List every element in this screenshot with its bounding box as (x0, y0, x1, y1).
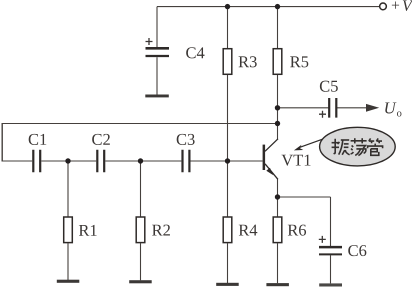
wire C2 to C3 (105, 160, 181, 162)
wire left to C1 (2, 160, 32, 162)
callout ellipse 振荡管 (294, 127, 395, 166)
capacitor C6 (319, 236, 367, 256)
resistor R2 (136, 217, 170, 243)
ground (R6) (266, 283, 289, 286)
wire C4 top drop (156, 7, 158, 48)
output arrow Uo (366, 103, 401, 117)
capacitor C5 (319, 81, 338, 118)
resistor R4 (223, 217, 257, 243)
junction dot collector-C5 (275, 105, 280, 110)
wire C6 top drop (330, 197, 332, 246)
wire R1 bottom to ground (67, 243, 69, 280)
wire C3 to base (190, 160, 263, 162)
wire left edge vertical (1, 123, 3, 162)
junction dot C1-R1 (65, 158, 70, 163)
resistor R6 (273, 217, 306, 243)
capacitor C3 (177, 134, 195, 172)
ground (C6) (319, 283, 342, 286)
junction dot rail-R3 (225, 4, 230, 9)
hanzi 振 (332, 139, 350, 155)
ground (R2) (129, 280, 152, 283)
wire R5 top (277, 7, 279, 49)
wire top supply rail (157, 6, 379, 8)
capacitor C4 (146, 38, 205, 58)
hanzi 荡 (351, 138, 367, 155)
hanzi 管 (368, 138, 383, 155)
capacitor C2 (92, 134, 110, 172)
junction dot rail-R5 (275, 4, 280, 9)
wire emitter down to node (277, 179, 279, 217)
wire C4 bottom to ground (156, 57, 158, 94)
transistor VT1 (263, 139, 311, 180)
resistor R3 (223, 49, 257, 75)
junction dot emitter node (275, 194, 280, 199)
wire R5 bottom to collector (277, 74, 279, 139)
wire R4 bottom to ground (227, 243, 229, 283)
wire feedback line (2, 123, 277, 125)
ground (R1) (57, 280, 80, 283)
ground (C4) (145, 95, 169, 98)
wire R1 top (67, 161, 69, 217)
wire C5 to arrow (337, 107, 372, 109)
wire C6 bottom to ground (330, 255, 332, 283)
wire emitter node to C6 branch (278, 196, 331, 198)
terminal +V (380, 0, 412, 11)
wire R3 bottom to R4 top (bias node) (227, 74, 229, 217)
wire R2 top (140, 161, 142, 217)
wire C1 to C2 (41, 160, 96, 162)
junction dot C3-base (225, 158, 230, 163)
ground (R4) (216, 283, 239, 286)
wire collector output line to C5 (278, 107, 329, 109)
junction dot collector-feedback (275, 121, 280, 126)
wire R3 top (227, 7, 229, 49)
resistor R1 (64, 217, 97, 243)
wire R6 bottom to ground (277, 243, 279, 283)
wire R2 bottom to ground (140, 243, 142, 280)
junction dot C2-R2 (138, 158, 143, 163)
resistor R5 (273, 49, 308, 75)
capacitor C1 (29, 134, 47, 172)
